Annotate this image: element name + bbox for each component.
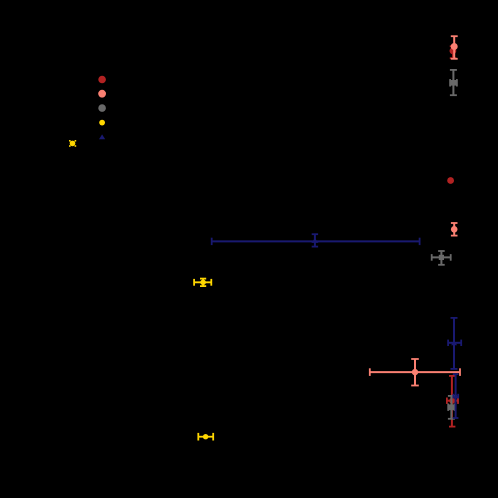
marker N dot <box>203 434 208 439</box>
errorbar N left cap <box>197 433 199 441</box>
marker H dot <box>200 280 206 286</box>
errorbar I bottom cap <box>451 368 458 370</box>
legend marker gold <box>99 120 105 126</box>
errorbar H bottom cap <box>200 285 206 287</box>
errorbar G top cap <box>438 250 445 252</box>
errorbar H vertical line <box>202 279 204 287</box>
errorbar M left cap <box>447 404 449 411</box>
errorbar L left cap <box>446 398 448 404</box>
errorbar H right cap <box>210 279 212 286</box>
errorbar I left cap <box>447 340 449 346</box>
errorbar J vertical line <box>414 359 416 386</box>
errorbar I right cap <box>460 340 462 346</box>
errorbar J bottom cap <box>411 385 419 387</box>
errorbar B1 vertical line <box>452 46 454 58</box>
legend marker firebrick <box>98 76 106 84</box>
errorbar K left cap <box>452 394 454 399</box>
errorbar I horizontal line <box>448 342 461 344</box>
errorbar F bottom cap <box>312 246 318 248</box>
errorbar G bottom cap <box>438 264 445 266</box>
errorbar I top cap <box>451 317 458 319</box>
errorbar M vertical line <box>450 396 452 419</box>
marker B1 dot <box>450 48 457 55</box>
errorbar E bottom cap <box>451 235 458 237</box>
marker E dot <box>451 226 458 233</box>
legend marker salmon <box>98 90 106 98</box>
legend marker navy triangle <box>99 134 105 139</box>
errorbar L bottom cap <box>449 426 455 428</box>
errorbar B2 bottom cap <box>451 58 458 60</box>
marker B2 dot <box>451 43 458 50</box>
marker I triangle <box>451 341 457 346</box>
errorbar H top cap <box>200 278 206 280</box>
marker K triangle <box>453 393 459 398</box>
errorbar F right cap <box>419 238 421 245</box>
errorbar K top cap <box>453 373 459 375</box>
errorbar L horizontal line <box>447 400 458 402</box>
marker A dot <box>70 141 76 147</box>
errorbar K vertical line <box>455 374 457 418</box>
errorbar N horizontal line <box>198 436 213 438</box>
errorbar J horizontal line <box>370 371 460 373</box>
marker D dot <box>447 177 454 184</box>
errorbar B1 top cap <box>450 45 457 47</box>
errorbar G vertical line <box>440 251 442 265</box>
errorbar A cap speck bottom-right <box>75 145 77 147</box>
errorbar C bottom cap <box>450 94 457 96</box>
errorbar A cap speck bottom-left <box>69 145 71 147</box>
marker J dot <box>412 369 418 375</box>
errorbar B2 top cap <box>451 35 458 37</box>
errorbar F top cap <box>312 233 318 235</box>
errorbar C vertical line <box>452 70 454 95</box>
marker C square <box>451 80 457 86</box>
errorbar L right cap <box>457 398 459 404</box>
errorbar B1 bottom cap <box>450 57 457 59</box>
errorbar M bottom cap <box>448 418 455 420</box>
errorbar G left cap <box>431 254 433 261</box>
errorbar J right cap <box>459 368 461 376</box>
errorbar L top cap <box>449 375 455 377</box>
errorbar K bottom cap <box>453 417 459 419</box>
marker F triangle <box>311 238 318 243</box>
errorbar F left cap <box>211 238 213 245</box>
errorbar H left cap <box>193 279 195 286</box>
errorbar H horizontal line <box>194 281 211 283</box>
errorbar E top cap <box>451 222 458 224</box>
errorbar L vertical line <box>451 376 453 427</box>
errorbar J top cap <box>411 358 419 360</box>
errorbar N right cap <box>212 433 214 441</box>
marker M square <box>448 404 455 410</box>
errorbar I vertical line <box>453 318 455 369</box>
errorbar C top cap <box>450 69 457 71</box>
errorbar A cap speck top-left <box>69 140 71 142</box>
errorbar B2 vertical line <box>453 36 455 59</box>
errorbar J left cap <box>369 368 371 376</box>
errorbar M right cap <box>454 404 456 411</box>
errorbar G horizontal line <box>432 256 451 258</box>
errorbar E vertical line <box>453 223 455 236</box>
errorbar A cap speck top-right <box>75 140 77 142</box>
errorbar C left cap <box>449 79 451 86</box>
legend marker gray <box>98 104 106 112</box>
errorbar C right cap <box>456 79 458 86</box>
marker L dot <box>449 398 455 404</box>
errorbar F horizontal line <box>212 240 420 242</box>
marker G square <box>439 255 444 260</box>
errorbar M top cap <box>448 395 455 397</box>
errorbar F vertical line <box>314 234 316 246</box>
errorbar G right cap <box>450 254 452 261</box>
errorbar K right cap <box>457 394 459 399</box>
